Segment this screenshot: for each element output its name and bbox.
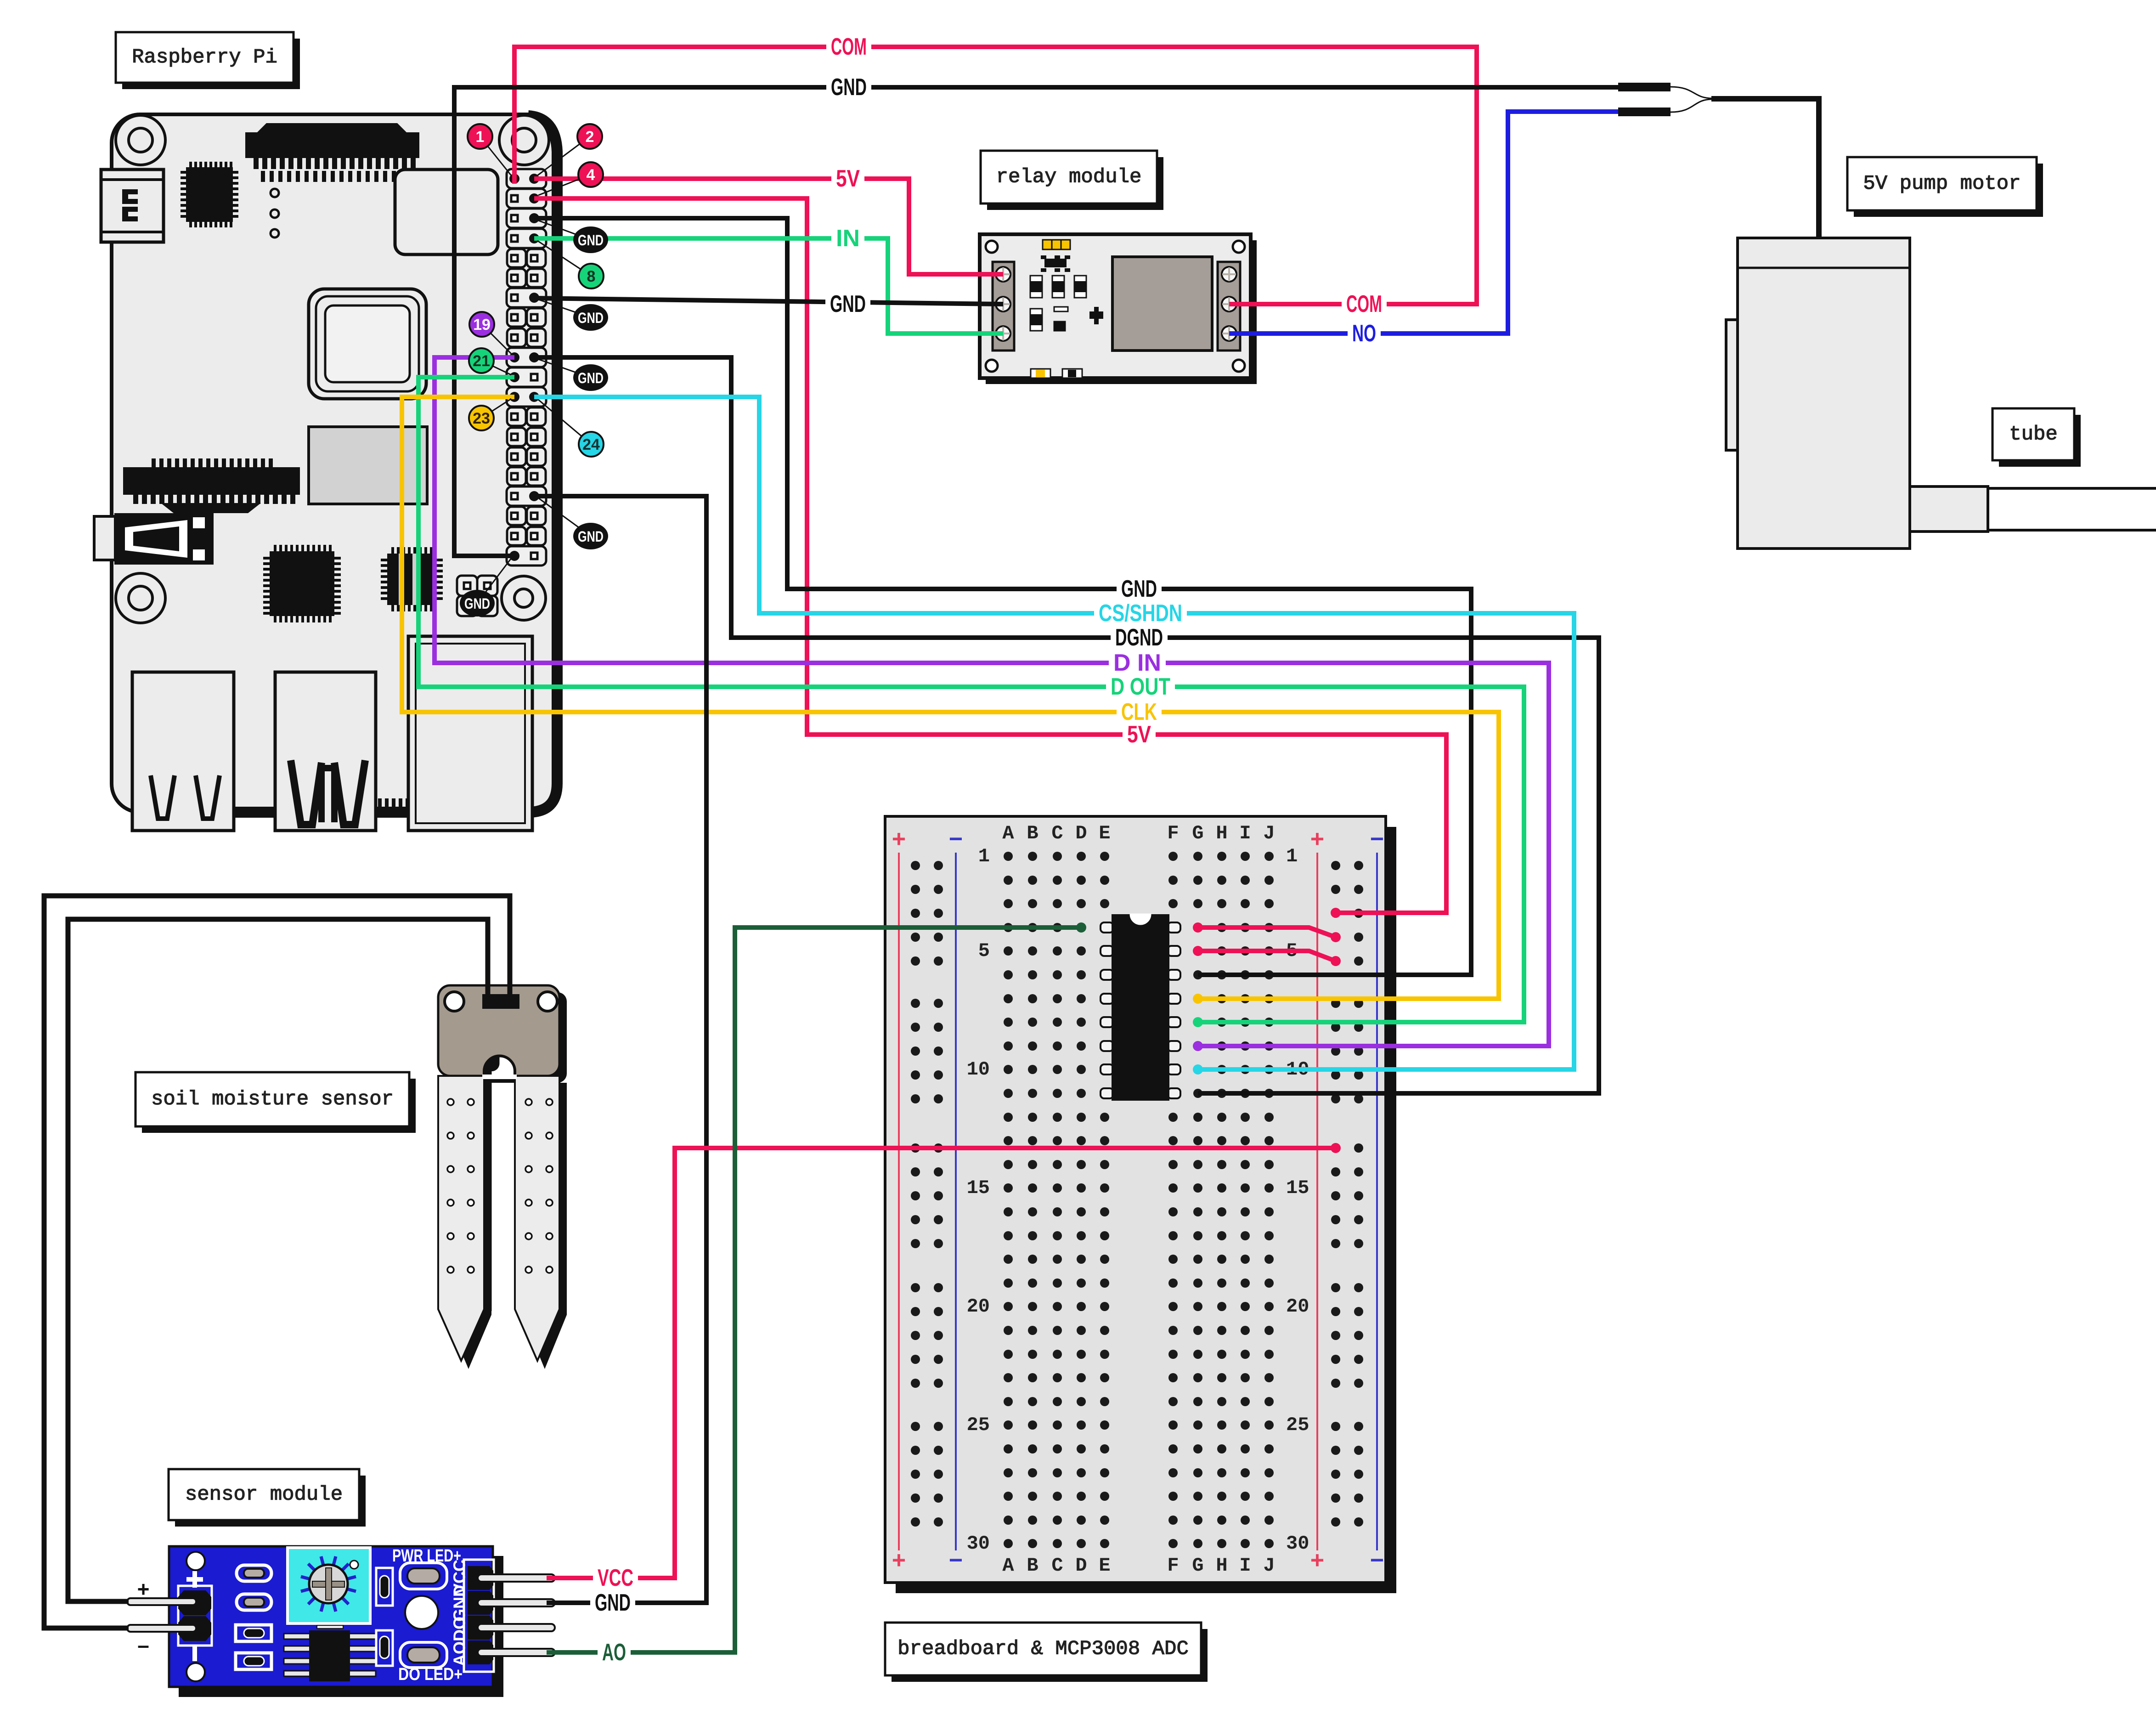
pin bubble 24 <box>538 400 604 457</box>
sensor module probe leads <box>127 1598 196 1632</box>
svg-text:GND: GND <box>578 310 604 326</box>
svg-text:1: 1 <box>978 845 990 867</box>
wire red jumper G5 to rail <box>1198 951 1336 961</box>
wire D IN purple pin19 to breadboard row9 <box>435 357 1549 1046</box>
wire label D IN bus <box>1109 650 1166 676</box>
svg-text:AO: AO <box>450 1641 469 1666</box>
bottom comb strip <box>275 798 423 807</box>
wire IN green pin8 to relay IN <box>534 238 1003 334</box>
chip U3 <box>381 547 443 611</box>
breadboard holes main grid <box>1004 852 1274 1548</box>
wire soil probe wire outer <box>44 896 510 1628</box>
camera connector <box>245 123 419 182</box>
relay 3-pin header <box>1043 240 1070 249</box>
svg-text:−: − <box>948 1549 963 1576</box>
GND bubble pin6 <box>538 221 608 253</box>
RAM chip <box>309 427 427 504</box>
relay LEDs <box>1031 369 1082 378</box>
mounting hole bottom-left <box>116 573 165 623</box>
svg-text:4: 4 <box>587 166 595 184</box>
wire red jumper G4 to rail <box>1198 928 1336 937</box>
soil sensor shadow <box>446 992 567 1369</box>
sensor module board <box>169 1546 493 1687</box>
wire CS/SHDN cyan pin24 to breadboard row10 <box>534 397 1574 1069</box>
svg-text:DO LED+: DO LED+ <box>398 1665 463 1684</box>
svg-text:I: I <box>1239 822 1251 844</box>
test pads <box>271 189 279 238</box>
sensor module mount holes <box>186 1552 205 1681</box>
wire GND black sensor module to pin34 <box>534 496 706 1603</box>
svg-text:F: F <box>1167 822 1179 844</box>
wire GND black pin14 to relay DC- <box>534 298 1003 304</box>
svg-text:10: 10 <box>967 1058 990 1080</box>
svg-text:B: B <box>1027 1555 1038 1577</box>
svg-text:COM: COM <box>831 34 867 60</box>
label box: sensor module <box>169 1469 366 1527</box>
svg-text:5V: 5V <box>1127 721 1151 748</box>
svg-text:1: 1 <box>476 128 485 146</box>
breadboard holes power rails <box>911 861 1363 1527</box>
svg-text:J: J <box>1263 1555 1275 1577</box>
GND bubble pin14 <box>538 300 608 331</box>
svg-text:A: A <box>1002 822 1014 844</box>
svg-text:30: 30 <box>967 1533 990 1555</box>
wire VCC red sensor module to rail <box>547 1148 1336 1578</box>
wire 5V red from Pi pin2 to relay DC+ <box>534 179 1003 274</box>
svg-text:DO: DO <box>450 1617 469 1641</box>
wire label AO <box>598 1639 631 1666</box>
svg-text:GND: GND <box>578 232 604 249</box>
pin bubble 1 <box>468 124 511 175</box>
wire DGND black pin20r to breadboard row11 <box>534 357 1599 1093</box>
wire NO blue relay to motor <box>1229 112 1643 334</box>
svg-text:F: F <box>1167 1555 1179 1577</box>
svg-text:GND: GND <box>578 370 604 386</box>
breadboard body <box>885 816 1386 1583</box>
svg-text:GND: GND <box>831 74 867 101</box>
mounting hole bottom-right <box>502 576 546 620</box>
svg-text:G: G <box>1192 1555 1203 1577</box>
svg-text:25: 25 <box>1286 1414 1309 1436</box>
svg-text:CS/SHDN: CS/SHDN <box>1099 600 1182 627</box>
wire CLK yellow pin23 to breadboard row7 <box>402 397 1499 999</box>
svg-text:D: D <box>1075 1555 1087 1577</box>
svg-text:+: + <box>1310 1549 1324 1576</box>
svg-text:DGND: DGND <box>1115 624 1163 651</box>
label box: 5V pump motor <box>1847 157 2043 217</box>
svg-text:−: − <box>1370 827 1384 854</box>
USB port 2 <box>275 672 376 831</box>
pin bubble 19 <box>469 312 511 354</box>
display connector <box>123 458 300 513</box>
soil sensor prong left <box>438 1076 484 1361</box>
GND bubble pin34 <box>538 498 608 549</box>
svg-text:21: 21 <box>473 352 490 370</box>
wire label 5V bus <box>1123 721 1156 748</box>
wire label NO relay <box>1348 320 1381 347</box>
chip U2 <box>263 545 341 622</box>
svg-text:20: 20 <box>967 1295 990 1318</box>
label box: breadboard &amp; MCP3008 ADC <box>885 1623 1208 1682</box>
pin bubble 21 <box>469 348 511 375</box>
wire label D OUT bus <box>1106 673 1175 700</box>
bullet connector 1 <box>1618 83 1671 91</box>
label box: soil moisture sensor <box>135 1072 416 1133</box>
svg-text:24: 24 <box>582 436 600 453</box>
svg-text:Raspberry Pi: Raspberry Pi <box>132 46 277 69</box>
svg-text:VCC: VCC <box>598 1565 633 1591</box>
svg-text:I: I <box>1239 1555 1251 1577</box>
pin bubble 8 <box>537 241 604 288</box>
pin bubble 2 <box>537 124 602 175</box>
label box: relay module <box>981 151 1163 210</box>
chip U1 <box>181 162 238 227</box>
soil sensor body <box>438 985 559 1076</box>
soil sensor prong pads <box>447 1099 553 1273</box>
breadboard column letters <box>1002 822 1275 1577</box>
pump nozzle <box>1910 486 1988 532</box>
splice wires to motor <box>1671 87 1819 238</box>
wire D OUT green pin21 to breadboard row8 <box>418 377 1524 1022</box>
svg-text:IN: IN <box>836 225 860 252</box>
sensor module white hole <box>405 1596 438 1629</box>
run header <box>457 576 497 616</box>
wire label GND top <box>826 74 871 101</box>
relay module shadow <box>986 240 1257 384</box>
wifi module <box>395 170 498 255</box>
sensor module probe connector <box>178 1571 212 1661</box>
wire label COM top <box>826 34 871 60</box>
GND bubble pin39 <box>460 558 512 616</box>
sensor module silk text <box>392 1546 469 1684</box>
wire COM red from Pi pin1 to relay COM <box>514 47 1477 304</box>
sensor module PWR LED <box>400 1563 447 1589</box>
svg-text:23: 23 <box>473 410 490 427</box>
soil sensor prong right <box>515 1076 559 1361</box>
svg-text:GND: GND <box>450 1585 469 1622</box>
MCP3008 ADC chip <box>1101 914 1180 1101</box>
mounting hole top-right <box>499 115 549 165</box>
svg-text:D IN: D IN <box>1113 650 1161 676</box>
wire label IN <box>831 225 864 252</box>
svg-text:19: 19 <box>473 316 491 334</box>
svg-text:8: 8 <box>587 268 596 285</box>
wire GND black pin20 motor return <box>454 87 1643 556</box>
USB port 1 <box>132 672 234 831</box>
svg-text:C: C <box>1051 822 1063 844</box>
svg-text:15: 15 <box>1286 1177 1309 1199</box>
svg-text:20: 20 <box>1286 1295 1309 1318</box>
relay transistor Q1 <box>1041 255 1070 272</box>
svg-text:−: − <box>948 827 963 854</box>
pin bubble 4 <box>538 162 603 195</box>
HDMI connector <box>101 170 164 242</box>
GPIO header <box>507 169 546 566</box>
svg-text:2: 2 <box>586 128 594 146</box>
wire label COM relay <box>1342 291 1387 317</box>
sensor module IC <box>284 1625 376 1681</box>
svg-text:GND: GND <box>830 291 866 317</box>
svg-text:15: 15 <box>967 1177 990 1199</box>
breadboard shadow <box>896 827 1396 1593</box>
ethernet port <box>408 636 532 831</box>
wire 5V red from Pi pin4 to breadboard rail <box>534 198 1446 913</box>
svg-text:AO: AO <box>602 1639 626 1666</box>
svg-text:GND: GND <box>1121 576 1157 602</box>
relay SMD parts <box>1030 276 1103 331</box>
svg-text:COM: COM <box>1346 291 1382 317</box>
svg-text:tube: tube <box>2009 423 2058 446</box>
wire label 5V relay <box>831 165 864 192</box>
wire label DGND bus <box>1111 624 1168 651</box>
svg-text:GND: GND <box>578 528 604 545</box>
svg-text:+: + <box>137 1577 150 1601</box>
breadboard row numbers <box>967 845 1309 1555</box>
wire AO dark green sensor module to D4 <box>547 928 1081 1652</box>
svg-text:30: 30 <box>1286 1533 1309 1555</box>
breadboard power rail lines <box>899 853 1377 1550</box>
svg-text:D: D <box>1075 822 1087 844</box>
relay module corner holes <box>986 241 1245 372</box>
svg-text:5: 5 <box>978 940 990 962</box>
svg-text:sensor module: sensor module <box>185 1483 343 1506</box>
svg-text:A: A <box>1002 1555 1014 1577</box>
svg-text:G: G <box>1192 822 1203 844</box>
svg-text:GND: GND <box>464 595 490 612</box>
pin bubble 23 <box>469 399 511 430</box>
sensor module trimmer RP1 <box>288 1548 370 1623</box>
svg-text:relay module: relay module <box>996 166 1142 189</box>
wire label CS/SHDN bus <box>1094 600 1187 627</box>
svg-text:−: − <box>1370 1549 1384 1576</box>
bullet connector 2 <box>1618 107 1671 116</box>
sensor module shadow <box>179 1556 503 1697</box>
sensor module DO LED <box>400 1642 447 1668</box>
svg-text:5V pump motor: 5V pump motor <box>1863 172 2021 195</box>
svg-text:+: + <box>892 827 906 854</box>
wire label GND sensor <box>590 1589 635 1616</box>
svg-text:+: + <box>1310 827 1324 854</box>
svg-text:25: 25 <box>967 1414 990 1436</box>
svg-text:H: H <box>1216 1555 1227 1577</box>
Raspberry Pi board outline <box>112 114 557 812</box>
svg-text:C: C <box>1051 1555 1063 1577</box>
wire soil probe wire inner <box>68 919 488 1601</box>
svg-text:breadboard & MCP3008 ADC: breadboard & MCP3008 ADC <box>897 1638 1189 1661</box>
svg-text:1: 1 <box>1286 845 1298 867</box>
svg-text:NO: NO <box>1352 320 1376 347</box>
svg-text:GND: GND <box>595 1589 631 1616</box>
sensor module +/- labels <box>137 1577 150 1657</box>
svg-text:H: H <box>1216 822 1227 844</box>
5V pump motor body <box>1726 238 1910 549</box>
wire GND black pin6 to breadboard row6 <box>534 218 1471 975</box>
GPIO pins <box>509 174 539 561</box>
sensor module 4-pin header <box>464 1560 555 1672</box>
wire label GND relay <box>825 291 870 317</box>
soil sensor connector <box>482 994 519 1009</box>
wire label VCC <box>593 1565 638 1591</box>
relay K1 box <box>1112 257 1212 351</box>
svg-text:soil moisture sensor: soil moisture sensor <box>151 1088 394 1111</box>
soil sensor slot <box>484 1056 515 1079</box>
svg-text:E: E <box>1099 822 1110 844</box>
sensor module SMD verticals <box>376 1568 393 1666</box>
relay terminal block left <box>993 262 1014 351</box>
svg-text:D OUT: D OUT <box>1111 673 1170 700</box>
svg-text:B: B <box>1027 822 1038 844</box>
mounting hole top-left <box>116 115 165 165</box>
label box: tube <box>1992 408 2081 467</box>
relay terminal block right <box>1218 262 1240 351</box>
sensor module pads <box>236 1565 271 1669</box>
breadboard rail +/- symbols <box>892 827 1384 1576</box>
CPU <box>309 289 426 399</box>
audio jack <box>94 513 214 565</box>
GND bubble pin20 <box>538 359 608 391</box>
svg-text:J: J <box>1263 822 1275 844</box>
tube <box>1988 488 2156 530</box>
svg-text:+: + <box>892 1549 906 1576</box>
svg-text:E: E <box>1099 1555 1110 1577</box>
svg-text:–: – <box>137 1633 149 1657</box>
wire label GND bus <box>1117 576 1162 602</box>
wire label CLK bus <box>1117 699 1162 725</box>
svg-text:5V: 5V <box>836 165 860 192</box>
label box: Raspberry Pi <box>116 32 300 89</box>
relay module board <box>980 234 1251 378</box>
soil sensor screw holes <box>445 992 557 1011</box>
